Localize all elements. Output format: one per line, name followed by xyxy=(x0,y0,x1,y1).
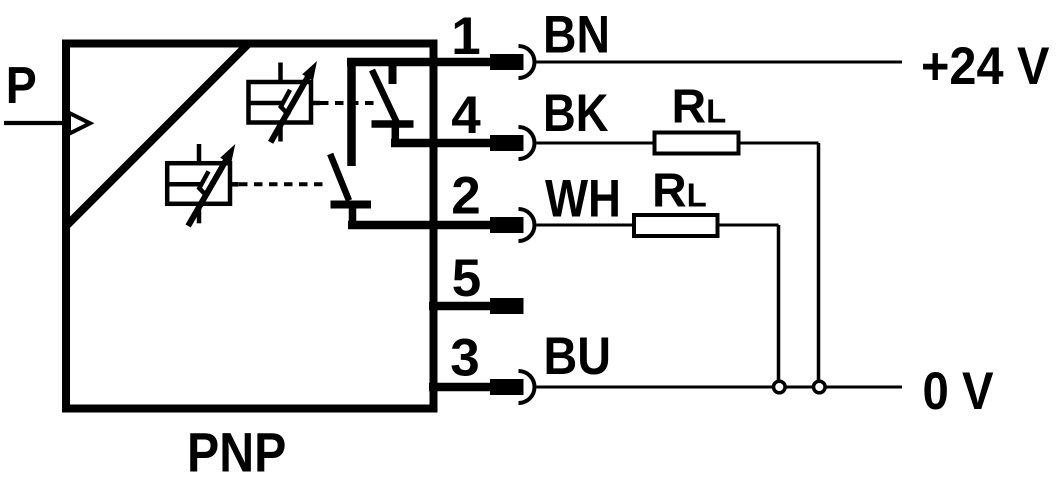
junction circle right (BK load) xyxy=(814,381,826,393)
wire BN to +24V xyxy=(537,61,903,64)
svg-text:PNP: PNP xyxy=(187,421,286,484)
sensor body box U1 xyxy=(66,44,434,409)
pin 2 socket arc xyxy=(519,209,535,241)
wire R2 to 0V drop xyxy=(718,224,779,227)
svg-text:WH: WH xyxy=(545,170,621,229)
pin 2 line xyxy=(348,221,491,230)
svg-text:RL: RL xyxy=(672,81,727,134)
svg-text:+24 V: +24 V xyxy=(921,37,1050,96)
pressure input line xyxy=(4,121,66,125)
pressure input arrowhead xyxy=(69,113,90,134)
svg-text:BU: BU xyxy=(544,327,612,386)
pin 4 plug stub xyxy=(490,135,524,151)
svg-text:2: 2 xyxy=(451,167,480,226)
svg-text:0 V: 0 V xyxy=(923,362,994,421)
resistor R2 xyxy=(634,215,718,236)
pin 3 plug stub xyxy=(490,379,524,395)
setpoint adjuster A2 (lower) xyxy=(167,144,239,226)
pin 1 plug stub xyxy=(490,54,524,70)
junction circle left (WH load) xyxy=(774,381,786,393)
wire BU to 0V xyxy=(537,386,903,389)
dashed actuation link upper xyxy=(320,101,377,105)
wire R2 vertical drop xyxy=(777,225,781,383)
svg-text:4: 4 xyxy=(451,86,481,145)
pin 4 line xyxy=(391,139,491,148)
resistor R1 xyxy=(655,133,739,154)
pin 1 socket arc xyxy=(519,46,535,78)
svg-text:BK: BK xyxy=(543,84,609,143)
feed branch to switch S2 xyxy=(347,62,356,166)
svg-text:1: 1 xyxy=(451,7,480,66)
dashed actuation link lower xyxy=(239,182,324,186)
pin 5 plug stub xyxy=(490,298,524,314)
pin 2 plug stub xyxy=(490,217,524,233)
svg-text:RL: RL xyxy=(652,165,707,218)
pin 3 socket arc xyxy=(519,371,535,403)
wire BK to resistor R1 xyxy=(537,142,655,145)
setpoint adjuster A1 (upper) xyxy=(249,61,321,142)
pin 5 line xyxy=(429,302,491,311)
switch S2 (lower, output pin2) xyxy=(330,154,371,225)
svg-text:5: 5 xyxy=(452,249,481,308)
sensor body diagonal xyxy=(67,43,250,226)
svg-text:P: P xyxy=(6,57,37,115)
switch S1 (upper, output pin4) xyxy=(372,62,414,143)
svg-text:3: 3 xyxy=(450,329,479,388)
svg-text:BN: BN xyxy=(543,6,610,65)
wire R1 vertical drop xyxy=(817,143,821,383)
pin 4 socket arc xyxy=(519,127,535,159)
wire WH to resistor R2 xyxy=(537,224,635,227)
+24V feed rail inside box (net pin1) xyxy=(347,58,491,67)
wire R1 to 0V drop xyxy=(739,142,819,145)
pin 3 line xyxy=(429,383,491,392)
